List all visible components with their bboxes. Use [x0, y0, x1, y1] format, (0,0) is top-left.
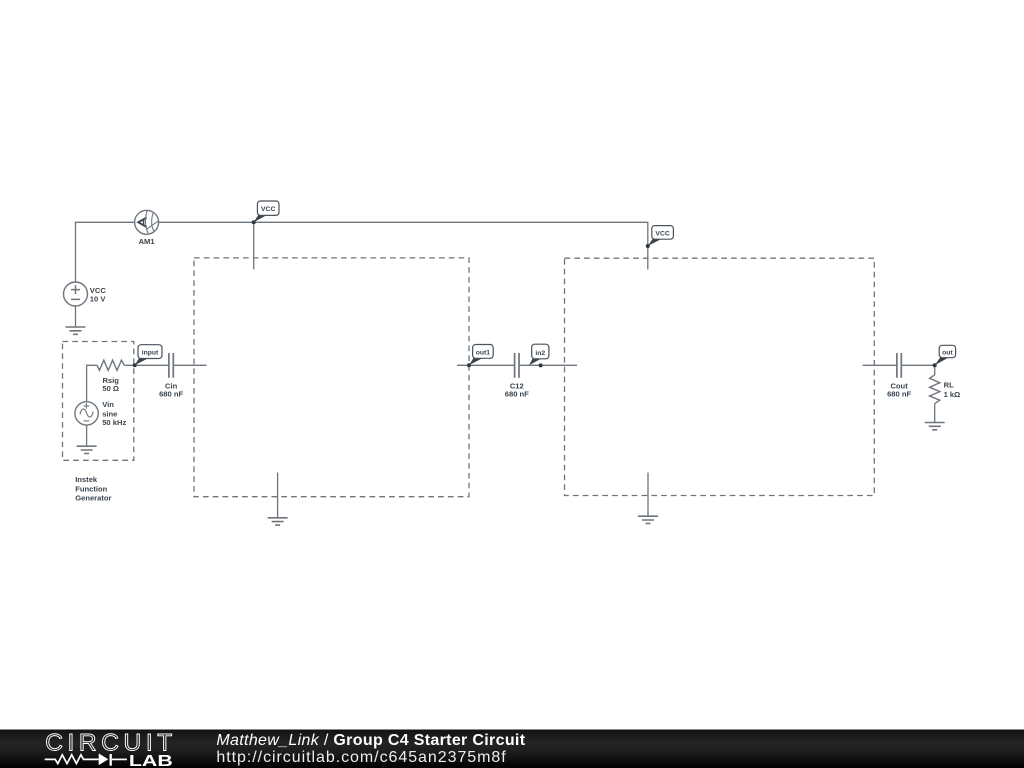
net flag VCC (top left) [254, 201, 279, 222]
wire Cin to box1 pin [173, 364, 206, 366]
svg-text:1 kΩ: 1 kΩ [944, 390, 961, 399]
svg-text:LAB: LAB [129, 753, 173, 768]
wire C12 to box2 pin [519, 364, 577, 366]
footer bar [0, 730, 1024, 768]
resistor RL 1 kohm [930, 375, 961, 404]
wire Cout to out node [901, 364, 934, 366]
net flag input [135, 345, 162, 365]
node dot VCC2 attach [646, 244, 650, 248]
ground below RL [925, 423, 945, 430]
wire top rail left segment [76, 222, 135, 281]
node dot in2 [539, 363, 543, 367]
wire RL to ground [934, 404, 936, 423]
wire VCC tap vertical [253, 222, 255, 269]
svg-text:Vin: Vin [102, 400, 114, 409]
box Instek function generator (dashed) [63, 342, 134, 461]
svg-text:Function: Function [75, 484, 107, 493]
wire V1 to ground [75, 306, 77, 327]
net flag out [935, 345, 956, 365]
svg-text:Instek: Instek [75, 475, 98, 484]
svg-text:680 nF: 680 nF [159, 390, 183, 399]
svg-text:out1: out1 [476, 349, 491, 356]
net flag VCC (stage 2) [648, 226, 673, 246]
wire Rsig left to Vin [87, 365, 98, 402]
label Instek Function Generator [75, 475, 111, 503]
ground below box stage 1 [268, 518, 288, 525]
box stage 2 (dashed) [565, 258, 875, 495]
voltage source V1 (VCC 10 V) [64, 282, 107, 306]
svg-text:50 Ω: 50 Ω [102, 384, 119, 393]
ground below Vin [77, 446, 97, 453]
node dot input [133, 363, 137, 367]
svg-text:input: input [142, 350, 159, 357]
net flag out1 [469, 345, 493, 366]
capacitor Cin 680 nF [159, 353, 183, 399]
svg-text:680 nF: 680 nF [887, 390, 911, 399]
svg-text:50 kHz: 50 kHz [102, 418, 126, 427]
svg-text:680 nF: 680 nF [505, 390, 529, 399]
wire out node to RL [934, 365, 936, 375]
logo resistor-diode squiggle [45, 753, 127, 765]
ammeter AM1 [135, 210, 159, 246]
node dot out1 [467, 363, 471, 367]
net flag in2 [529, 344, 549, 365]
node dot out [933, 363, 937, 367]
svg-text:AM1: AM1 [139, 237, 156, 246]
svg-text:sine: sine [102, 409, 117, 418]
svg-text:out: out [942, 350, 953, 357]
capacitor C12 680 nF [505, 353, 529, 399]
svg-text:RL: RL [944, 381, 954, 390]
wire box2 right pin to Cout [863, 364, 897, 366]
capacitor Cout 680 nF [887, 353, 911, 399]
wire Vin to ground [86, 425, 88, 446]
wire input node to Cin [124, 364, 169, 366]
box stage 1 (dashed) [194, 258, 469, 497]
wire top rail right segment [159, 222, 648, 269]
svg-text:Matthew_Link / Group C4 Starte: Matthew_Link / Group C4 Starter Circuit [216, 732, 525, 749]
wire box2 ground pin [647, 473, 649, 517]
svg-text:VCC: VCC [261, 206, 275, 213]
svg-text:Generator: Generator [75, 494, 111, 503]
svg-text:in2: in2 [535, 350, 545, 357]
resistor Rsig 50 ohm [97, 360, 124, 393]
svg-text:10 V: 10 V [90, 295, 107, 304]
wire out1 to C12 [457, 364, 515, 366]
node dot VCC tap [252, 220, 256, 224]
svg-text:VCC: VCC [655, 230, 669, 237]
svg-text:http://circuitlab.com/c645an23: http://circuitlab.com/c645an2375m8f [216, 749, 506, 766]
ground below V1 [66, 327, 86, 334]
wire box1 ground pin [277, 473, 279, 518]
voltage source Vin (sine 50 kHz) [75, 400, 127, 427]
ground below box stage 2 [638, 516, 658, 523]
